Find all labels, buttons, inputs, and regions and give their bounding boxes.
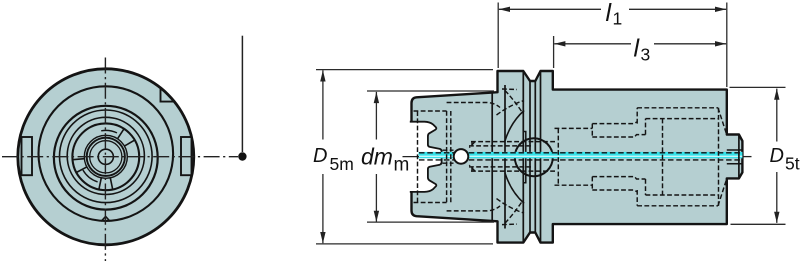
l3 arrows xyxy=(554,41,726,46)
corner keyway notch xyxy=(161,88,175,102)
hidden flange shoulder top xyxy=(502,89,517,225)
keyway jog on flange face xyxy=(523,132,526,183)
D5t ext bottom xyxy=(731,223,786,225)
hidden bore B xyxy=(592,122,637,192)
nub chamfer edge xyxy=(738,135,740,179)
hidden step vertical xyxy=(446,111,448,203)
dmm ext top xyxy=(367,90,494,92)
drive dome circle xyxy=(515,138,553,176)
trilobe inner curve xyxy=(60,110,153,203)
hidden line top B xyxy=(447,103,500,211)
bottom index notch xyxy=(101,216,110,221)
D5m ext top xyxy=(316,69,493,71)
offset circle (taper rear edge) xyxy=(39,86,174,221)
inner bore circle xyxy=(67,117,144,194)
reference leader line xyxy=(241,36,243,152)
hidden inner bore right xyxy=(646,119,719,195)
svg-text:l: l xyxy=(606,0,613,27)
horizontal centerline xyxy=(2,156,238,158)
hidden tube bracket verticals xyxy=(471,142,473,172)
trilobe outer curve xyxy=(54,106,158,210)
hollow bore profile line xyxy=(410,122,442,192)
hidden coolant tube inner xyxy=(469,146,531,167)
svg-text:1: 1 xyxy=(613,9,623,29)
l1/l3 ext line right xyxy=(726,3,728,88)
hollow bore opening (white) xyxy=(410,122,442,192)
bore cone line bottom xyxy=(505,173,524,204)
clamp ring outer circle xyxy=(72,123,139,190)
hidden flange curve top a xyxy=(505,91,522,113)
collar circle thick xyxy=(87,138,125,176)
dmm dim line xyxy=(375,92,377,222)
svg-text:3: 3 xyxy=(641,44,651,64)
svg-text:5t: 5t xyxy=(785,154,800,174)
hidden mid step vertical xyxy=(662,119,664,195)
hidden tube stubs at ball xyxy=(443,150,454,163)
vertical centerline xyxy=(104,58,106,261)
D5t arrows xyxy=(774,89,779,223)
flange face line xyxy=(504,85,506,229)
centerline stub left xyxy=(403,156,420,158)
D5m arrows xyxy=(320,70,325,243)
clamp mid arc upper xyxy=(101,130,117,133)
hidden tube corner chamfers xyxy=(469,142,475,172)
clamp mid arc lower xyxy=(83,170,98,182)
bore cone line top xyxy=(505,111,524,142)
centerline stub right xyxy=(742,156,751,158)
flange disc outer circle xyxy=(18,69,194,245)
left drive slot xyxy=(22,137,33,175)
hidden right wall vertical xyxy=(718,108,720,206)
gauge plane line xyxy=(491,93,493,221)
hidden flange curve top b xyxy=(497,101,525,116)
coolant dashed bottom xyxy=(419,159,742,161)
hidden flange curve bottom a xyxy=(505,202,522,224)
svg-text:D: D xyxy=(313,145,327,167)
svg-text:5m: 5m xyxy=(330,154,354,174)
hidden sleeve xyxy=(592,135,645,179)
cyan coolant band xyxy=(419,152,743,158)
hidden step vertical b xyxy=(450,111,452,203)
dmm ext bottom xyxy=(367,221,494,223)
collar circle thin xyxy=(90,141,122,173)
hidden sleeve step verticals xyxy=(645,119,647,195)
hidden line top A xyxy=(414,111,447,203)
hidden bore C chamfers xyxy=(718,108,727,206)
l1 ext line left xyxy=(497,3,499,69)
groove bottom line right xyxy=(534,81,536,233)
reference dot xyxy=(238,152,246,160)
dmm arrows xyxy=(374,92,379,222)
clamp slot radial lines xyxy=(73,129,135,190)
D5t dim line xyxy=(776,89,778,223)
svg-text:dm: dm xyxy=(361,144,393,170)
svg-text:m: m xyxy=(394,155,410,176)
hidden step A-B verticals xyxy=(591,124,593,190)
l1 arrows xyxy=(499,7,726,12)
hidden flange curve bottom b xyxy=(497,199,525,214)
svg-text:D: D xyxy=(770,145,784,167)
hidden bore step A xyxy=(555,128,593,185)
l3 ext line xyxy=(553,36,555,68)
right drive slot xyxy=(181,137,192,175)
coolant dashed top xyxy=(419,152,742,154)
coolant ball xyxy=(454,149,469,164)
l3 dim line xyxy=(554,43,726,45)
center hole xyxy=(98,149,113,164)
body silhouette xyxy=(412,71,743,243)
hidden taper bore vertical xyxy=(417,111,419,202)
nub slot lines xyxy=(727,150,743,164)
right peak rim line xyxy=(540,72,542,243)
hidden bore step C xyxy=(637,108,718,206)
left peak rim line xyxy=(522,72,524,243)
l1 dim line xyxy=(499,8,726,10)
coolant white centerline xyxy=(419,156,743,157)
clamp ring inner circle xyxy=(84,135,127,178)
D5t ext top xyxy=(730,86,786,88)
D5m ext bottom xyxy=(316,243,493,245)
D5m dim line xyxy=(322,70,324,243)
svg-text:l: l xyxy=(634,34,641,62)
hidden coolant tube outer xyxy=(471,142,557,172)
groove bottom line left xyxy=(529,81,531,233)
